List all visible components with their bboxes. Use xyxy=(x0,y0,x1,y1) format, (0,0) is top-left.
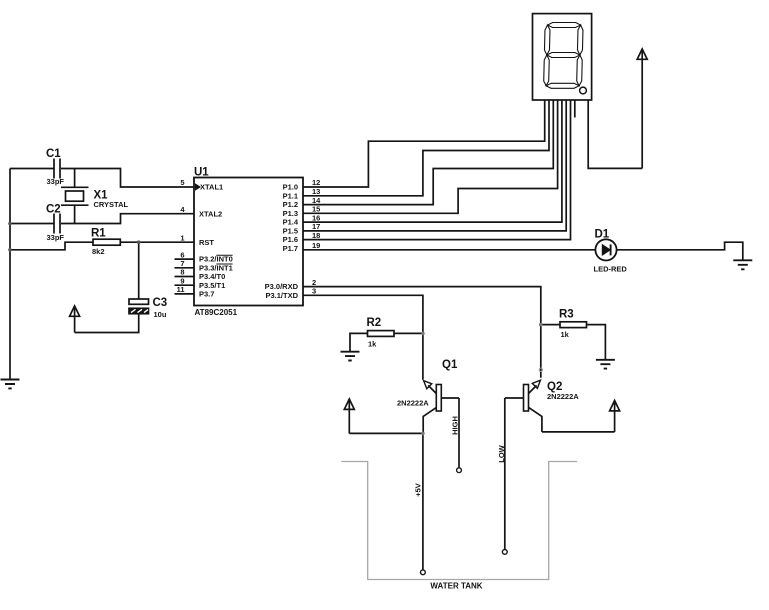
svg-text:3: 3 xyxy=(312,287,316,296)
svg-text:C3: C3 xyxy=(153,297,168,309)
svg-text:P3.2/INT0: P3.2/INT0 xyxy=(199,255,233,264)
crystal X1 xyxy=(61,169,89,224)
wire R1 to RST xyxy=(120,241,194,243)
svg-text:R3: R3 xyxy=(559,308,574,320)
svg-text:15: 15 xyxy=(312,205,320,214)
svg-text:Q1: Q1 xyxy=(442,359,458,371)
svg-text:10u: 10u xyxy=(154,310,167,319)
XTAL1 clock input marker xyxy=(195,183,201,190)
svg-text:1k: 1k xyxy=(561,330,570,339)
svg-text:C1: C1 xyxy=(46,148,61,160)
svg-text:P3.4/T0: P3.4/T0 xyxy=(199,272,225,281)
transistor Q1 xyxy=(423,381,459,434)
power arrow right of Q2 xyxy=(610,401,620,432)
svg-text:14: 14 xyxy=(312,196,321,205)
svg-text:2N2222A: 2N2222A xyxy=(397,398,429,407)
svg-text:LOW: LOW xyxy=(497,444,506,462)
svg-text:P1.1: P1.1 xyxy=(283,191,298,200)
svg-text:18: 18 xyxy=(312,231,320,240)
wire P3.1 pin3 to Q1 xyxy=(303,295,423,379)
svg-text:4: 4 xyxy=(180,205,185,214)
water tank xyxy=(341,462,577,580)
junction R2 Q1 xyxy=(421,332,425,336)
wire R2 right to junction xyxy=(394,332,423,334)
svg-text:5: 5 xyxy=(180,178,184,187)
pin 7 stub xyxy=(175,267,195,269)
svg-text:R1: R1 xyxy=(91,228,106,240)
pin 11 stub xyxy=(175,293,195,295)
svg-text:RST: RST xyxy=(199,238,214,247)
ground under R2 xyxy=(341,352,360,361)
pin 9 stub xyxy=(175,284,195,286)
probe terminal HIGH xyxy=(457,468,462,473)
wire R3 left to junction xyxy=(541,324,560,326)
svg-text:13: 13 xyxy=(312,187,320,196)
svg-text:11: 11 xyxy=(177,285,185,294)
ground left rail xyxy=(1,380,20,389)
wire R2 left to ground xyxy=(350,333,368,351)
svg-text:HIGH: HIGH xyxy=(450,416,459,435)
svg-text:16: 16 xyxy=(312,213,320,222)
pin name P3.2/INT0 xyxy=(199,255,233,264)
resistor R1 xyxy=(93,239,120,245)
svg-text:P3.3/INT1: P3.3/INT1 xyxy=(199,263,233,272)
wire P1.0 pin12 to display seg a xyxy=(303,100,545,187)
power arrow left of Q1 xyxy=(344,399,354,433)
power arrow near C3 xyxy=(70,306,80,333)
svg-text:CRYSTAL: CRYSTAL xyxy=(94,200,129,209)
wire C1 left to rail xyxy=(10,168,54,170)
svg-text:U1: U1 xyxy=(194,166,209,178)
probe terminal LOW xyxy=(502,550,507,555)
wire Q2 collector to power arrow xyxy=(542,431,615,433)
pin name P3.3/INT1 xyxy=(199,263,233,272)
svg-text:P1.7: P1.7 xyxy=(283,244,298,253)
capacitor C2 xyxy=(54,214,60,234)
wire RST junction to C3 xyxy=(138,242,140,299)
wire C2 to XTAL2 xyxy=(61,214,194,224)
display decimal point xyxy=(580,87,587,94)
svg-text:17: 17 xyxy=(312,222,320,231)
svg-text:D1: D1 xyxy=(595,228,610,240)
svg-text:P3.1/TXD: P3.1/TXD xyxy=(265,291,298,300)
svg-text:1: 1 xyxy=(180,233,184,242)
svg-text:19: 19 xyxy=(312,241,320,250)
wire display common to power arrow xyxy=(588,100,642,168)
svg-text:AT89C2051: AT89C2051 xyxy=(195,308,238,317)
wire P1.6 pin18 to display seg g xyxy=(303,100,571,240)
ground right of D1 xyxy=(733,260,752,269)
svg-text:P1.2: P1.2 xyxy=(283,200,298,209)
wire P1.7 pin19 to LED D1 xyxy=(303,249,596,251)
transistor Q2 xyxy=(505,380,542,432)
pin 6 stub xyxy=(175,258,195,260)
7-segment display body xyxy=(533,14,592,100)
display dp stub xyxy=(574,100,576,118)
7-segment digit xyxy=(544,23,584,89)
svg-text:+5V: +5V xyxy=(413,483,422,497)
wire C3 bottom to power arrow xyxy=(75,314,139,333)
resistor R2 xyxy=(368,331,395,337)
svg-text:33pF: 33pF xyxy=(47,177,65,186)
resistor R3 xyxy=(560,322,587,328)
wire P1.3 pin15 to display seg d xyxy=(303,100,558,213)
wire P1.4 pin16 to display seg e xyxy=(303,100,562,222)
probe wire HIGH xyxy=(458,398,460,468)
junction RST C3 xyxy=(137,240,141,244)
svg-text:C2: C2 xyxy=(46,204,61,216)
svg-text:33pF: 33pF xyxy=(47,233,65,242)
svg-text:12: 12 xyxy=(312,178,320,187)
svg-text:P1.0: P1.0 xyxy=(283,183,298,192)
svg-text:9: 9 xyxy=(180,276,184,285)
svg-text:2N2222A: 2N2222A xyxy=(547,392,579,401)
wire P1.2 pin14 to display seg c xyxy=(303,100,553,205)
wire C1 to XTAL1 xyxy=(61,169,194,188)
probe terminal +5V xyxy=(421,570,426,575)
wire P1.5 pin17 to display seg f xyxy=(303,100,566,231)
svg-text:LED-RED: LED-RED xyxy=(594,265,628,274)
junction R3 Q2 xyxy=(539,323,543,327)
svg-text:XTAL1: XTAL1 xyxy=(200,183,223,192)
junction Q1 collector probe xyxy=(421,432,425,436)
svg-text:1k: 1k xyxy=(368,339,377,348)
svg-text:R2: R2 xyxy=(367,317,382,329)
svg-text:WATER TANK: WATER TANK xyxy=(430,582,482,591)
svg-text:P1.3: P1.3 xyxy=(283,209,298,218)
svg-text:P3.7: P3.7 xyxy=(199,290,214,299)
pin 8 stub xyxy=(175,276,195,278)
junction on rail at R1 wire xyxy=(8,248,12,252)
capacitor C1 xyxy=(54,159,60,179)
svg-text:6: 6 xyxy=(180,250,184,259)
power arrow top right xyxy=(637,49,647,168)
svg-text:8k2: 8k2 xyxy=(92,247,105,256)
wire left rail xyxy=(9,169,11,380)
probe wire LOW xyxy=(504,398,506,550)
IC U1 body xyxy=(194,178,303,306)
svg-text:2: 2 xyxy=(312,278,316,287)
wire P3.0 pin2 to Q2 xyxy=(303,287,541,378)
ground under R3 xyxy=(596,360,615,369)
svg-text:8: 8 xyxy=(180,268,184,277)
wire rail to R1 xyxy=(10,242,93,250)
svg-text:7: 7 xyxy=(180,259,184,268)
wire P1.1 pin13 to display seg b xyxy=(303,100,549,196)
svg-text:P3.0/RXD: P3.0/RXD xyxy=(265,282,299,291)
node Q2 emitter xyxy=(539,368,542,371)
capacitor C3 polarized xyxy=(129,299,149,314)
svg-text:P3.5/T1: P3.5/T1 xyxy=(199,281,225,290)
wire R3 right to ground xyxy=(587,325,606,360)
LED D1 xyxy=(595,239,616,260)
svg-text:P1.5: P1.5 xyxy=(283,227,298,236)
wire D1 to right ground xyxy=(617,242,743,260)
svg-text:XTAL2: XTAL2 xyxy=(199,209,222,218)
wire C2 left to rail xyxy=(10,223,54,225)
svg-text:P1.6: P1.6 xyxy=(283,235,298,244)
junction on rail at C2 xyxy=(8,222,12,226)
svg-text:P1.4: P1.4 xyxy=(283,218,299,227)
wire Q1 collector to power arrow xyxy=(349,432,423,434)
probe wire +5V xyxy=(422,433,424,570)
